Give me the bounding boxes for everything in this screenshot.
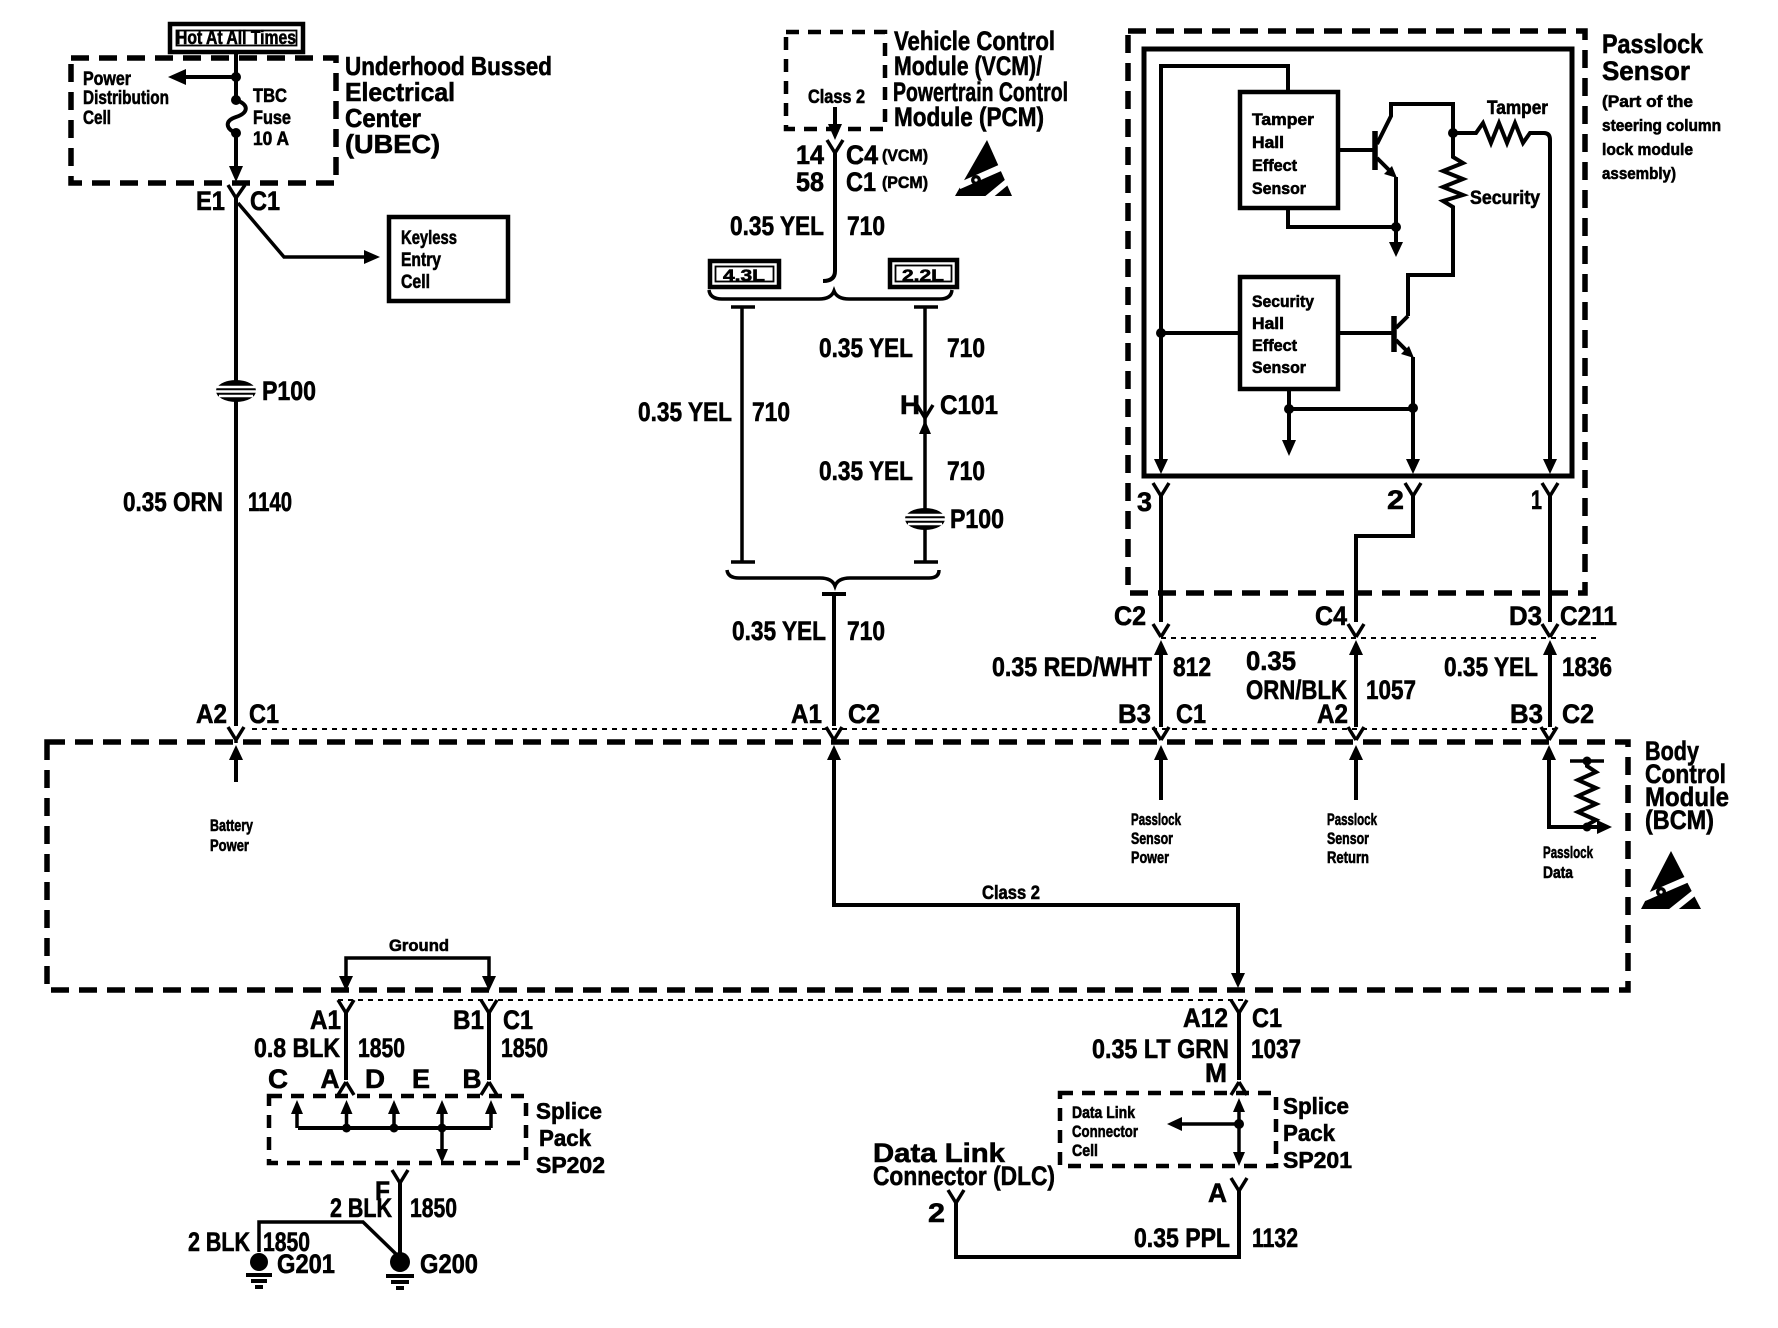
wire label 2 BLK 1850 (G201) [188,1227,310,1257]
svg-text:Data Link: Data Link [1072,1103,1135,1122]
connector H C101 [900,390,998,434]
svg-text:Sensor: Sensor [1252,358,1306,377]
Passlock Sensor outer dashed box [1128,31,1585,593]
connector A (SP201) [1208,1178,1247,1208]
svg-text:1850: 1850 [501,1033,548,1063]
Ground bracket inside BCM [339,936,496,991]
svg-text:710: 710 [847,211,885,241]
wire label 0.35 ORN/BLK 1057 [1246,646,1416,705]
svg-text:C1: C1 [846,167,876,197]
pin 3 [1137,483,1169,517]
svg-text:Tamper: Tamper [1487,98,1549,119]
svg-text:Fuse: Fuse [253,108,291,129]
connector B3 / C2 at BCM [1510,699,1594,760]
svg-text:(Part of the: (Part of the [1602,92,1693,111]
svg-text:Pack: Pack [539,1125,591,1151]
svg-text:1057: 1057 [1366,675,1416,705]
svg-text:Data: Data [1543,863,1573,882]
connector C1 face line at BCM bottom [338,999,1244,1001]
resistor Security [1408,133,1540,316]
svg-text:A2: A2 [1317,699,1348,729]
svg-text:1132: 1132 [1252,1223,1298,1253]
svg-text:1850: 1850 [358,1033,405,1063]
svg-text:(BCM): (BCM) [1645,805,1714,835]
svg-text:B3: B3 [1510,699,1543,729]
svg-text:Class 2: Class 2 [808,87,865,108]
connector C211 face line [1161,637,1597,639]
connector D3 C211 [1509,601,1617,727]
label "Power Distribution Cell" [83,69,169,129]
splice pin arrow B [485,1100,497,1128]
svg-text:M: M [1205,1058,1227,1088]
splice bus SP202 [298,1126,491,1130]
wire label 0.35 LT GRN 1037 [1092,1034,1301,1064]
svg-text:Tamper: Tamper [1252,110,1314,129]
wire Security Hall bottom to Q2 emitter [1282,389,1418,470]
UBEC dashed box (Underhood Bussed Electrical Center) [71,58,336,183]
svg-text:Battery: Battery [210,816,253,835]
connector M [1205,1058,1247,1095]
svg-text:E: E [412,1064,430,1094]
svg-text:4.3L: 4.3L [723,266,765,285]
resistor Tamper [1448,98,1550,143]
svg-text:steering column: steering column [1602,116,1721,135]
wire label 0.35 YEL 710 (2.2L branch lower) [819,456,985,486]
svg-text:A: A [1208,1178,1227,1208]
label Passlock Sensor Return [1327,810,1377,867]
wire A12 to SP201 [1237,1013,1241,1080]
wire arrow to Power Distribution Cell [168,69,241,85]
svg-text:Effect: Effect [1252,336,1297,355]
svg-text:1: 1 [1531,485,1542,515]
splice out arrow down [436,1128,448,1163]
svg-text:A12: A12 [1183,1003,1228,1033]
wire branch to G201 [259,1222,397,1255]
svg-text:G200: G200 [420,1249,478,1279]
label "Underhood Bussed Electrical Center (UBEC)" [345,51,552,159]
svg-text:2: 2 [928,1198,945,1228]
svg-text:Splice: Splice [536,1098,602,1124]
box Security Hall Effect Sensor [1240,277,1338,389]
wire fuse to UBEC border with arrow [229,133,243,182]
wire pin3 to C2 [1159,496,1163,622]
svg-text:0.35: 0.35 [1246,646,1296,676]
svg-text:Passlock: Passlock [1131,810,1181,829]
svg-text:1140: 1140 [248,487,292,517]
connector C4 (C211) [1315,601,1364,727]
wire label 0.35 YEL 1836 [1444,652,1612,682]
bottom brace [727,570,939,586]
svg-text:0.35 ORN: 0.35 ORN [123,487,223,517]
label Passlock Sensor Power [1131,810,1181,867]
svg-text:assembly): assembly) [1602,164,1676,183]
svg-text:2 BLK: 2 BLK [330,1193,392,1223]
svg-text:C1: C1 [1252,1003,1282,1033]
label "Body Control Module (BCM)" [1645,736,1729,835]
wire VCM down to engine brace [823,153,835,281]
box Keyless Entry Cell [389,217,508,301]
svg-text:C4: C4 [846,140,878,170]
ground G201 [246,1249,335,1287]
wire label 0.8 BLK 1850 [254,1033,405,1063]
connector A1 / C2 at BCM [791,699,880,743]
svg-text:0.35 YEL: 0.35 YEL [638,397,732,427]
svg-text:SP202: SP202 [536,1152,605,1178]
svg-text:Return: Return [1327,848,1369,867]
label Data Link Connector Cell [1072,1103,1138,1160]
tag box 2.2L [890,260,957,287]
tag box 4.3L [710,261,779,287]
label Data Link Connector (DLC) [873,1138,1055,1191]
wire label 0.35 RED/WHT 812 [992,652,1211,682]
connector A2 / C1 at BCM [196,699,279,743]
grommet P100 [215,376,316,406]
svg-text:Module (PCM): Module (PCM) [894,102,1044,132]
svg-text:C1: C1 [249,699,279,729]
svg-text:lock module: lock module [1602,140,1693,159]
svg-text:C2: C2 [848,699,880,729]
svg-text:B3: B3 [1118,699,1151,729]
svg-text:C: C [268,1064,288,1094]
wire from Hot At All Times into UBEC [234,52,238,96]
svg-text:A2: A2 [196,699,227,729]
svg-text:C4: C4 [1315,601,1347,631]
svg-text:C1: C1 [503,1005,533,1035]
grommet P100 (2.2L branch) [904,504,1004,534]
svg-text:Passlock: Passlock [1543,843,1593,862]
BCM dashed box (Body Control Module) [47,742,1628,990]
svg-text:14: 14 [796,140,824,170]
svg-text:B: B [463,1064,482,1094]
svg-text:2: 2 [1387,485,1404,515]
svg-text:2.2L: 2.2L [902,266,944,285]
svg-text:1850: 1850 [410,1193,457,1223]
wire Tamper resistor to pin 1 [1548,140,1552,470]
svg-text:Hall: Hall [1252,314,1284,333]
wire 4.3L branch [731,307,755,562]
svg-text:(PCM): (PCM) [882,173,928,192]
svg-text:Splice: Splice [1283,1093,1349,1119]
splice pin arrow C [291,1100,303,1128]
svg-text:Connector: Connector [1072,1122,1138,1141]
wire label 0.35 YEL 710 (2.2L branch upper) [819,333,985,363]
splice SP201 arrow to cell [1167,1117,1239,1131]
label box "Hot At All Times" [170,24,303,52]
wire label 2 BLK 1850 (F) [330,1193,457,1223]
svg-text:Sensor: Sensor [1131,829,1173,848]
pin 1 [1531,483,1558,515]
svg-text:D: D [365,1064,385,1094]
svg-text:Connector (DLC): Connector (DLC) [873,1161,1055,1191]
connector A2 at BCM [1317,699,1364,800]
wire pin1 to D3 [1548,496,1552,622]
svg-text:G201: G201 [277,1249,335,1279]
wire E1 down to BCM A2 [234,198,238,726]
svg-text:Keyless: Keyless [401,228,457,249]
wire label 0.35 PPL 1132 [1134,1223,1298,1253]
svg-text:58: 58 [796,167,824,197]
connector E1 / C1 [196,185,280,216]
wire label 0.35 YEL 710 (4.3L branch) [638,397,790,427]
label "Passlock Sensor (Part of the steering column lock module assembly)" [1602,29,1721,183]
svg-text:Entry: Entry [401,250,441,271]
svg-text:0.8 BLK: 0.8 BLK [254,1033,340,1063]
Class 2 wire inside BCM [827,745,1245,988]
Splice Pack SP201 dashed box [1060,1093,1276,1166]
pin arrows at sensor box bottom [1154,459,1557,474]
svg-text:P100: P100 [262,376,316,406]
svg-text:1836: 1836 [1562,652,1612,682]
svg-text:0.35 PPL: 0.35 PPL [1134,1223,1230,1253]
svg-text:Hall: Hall [1252,133,1284,152]
svg-text:Sensor: Sensor [1327,829,1369,848]
wire 2.2L branch [914,307,938,562]
transistor Q2 (security) [1338,316,1414,408]
svg-text:812: 812 [1173,652,1211,682]
svg-text:0.35 YEL: 0.35 YEL [732,616,826,646]
ground G200 [386,1249,478,1288]
node junction pin3 riser to Security Hall [1156,328,1240,338]
svg-text:(UBEC): (UBEC) [345,129,440,159]
svg-text:Passlock: Passlock [1602,29,1704,59]
svg-text:C101: C101 [940,390,998,420]
svg-text:0.35 YEL: 0.35 YEL [819,456,913,486]
wire pin3 riser and top feed [1161,66,1288,470]
svg-text:TBC: TBC [253,86,287,107]
pin arrow Battery Power [210,745,253,855]
svg-text:C1: C1 [250,186,280,216]
label Splice Pack SP201 [1283,1093,1352,1173]
top brace [709,290,952,299]
svg-text:Power: Power [83,69,131,90]
svg-text:0.35 YEL: 0.35 YEL [1444,652,1538,682]
wire F to G200 [398,1183,402,1253]
svg-text:Security: Security [1252,292,1314,311]
svg-text:A1: A1 [791,699,822,729]
svg-text:Distribution: Distribution [83,88,169,109]
svg-text:Cell: Cell [83,108,111,129]
svg-text:Pack: Pack [1283,1120,1335,1146]
svg-text:E1: E1 [196,186,225,216]
connector C1/C2 face line at BCM top [252,728,1556,730]
svg-text:C2: C2 [1114,601,1146,631]
ESD symbol (VCM) [955,140,1013,201]
fuse TBC Fuse 10 A [228,86,291,150]
svg-text:D3: D3 [1509,601,1542,631]
connector 2 (DLC) [928,1190,964,1228]
wire pin2 to C4 with jog [1356,496,1413,622]
label Splice Pack SP202 [536,1098,605,1178]
transistor Q1 (tamper) [1338,104,1453,227]
svg-text:3: 3 [1137,487,1152,517]
ESD symbol (BCM) [1641,851,1701,913]
box Tamper Hall Effect Sensor [1240,92,1338,208]
connector 14 C4 (VCM) / 58 C1 (PCM) [796,140,928,197]
Passlock Data circuit in BCM [1543,757,1612,883]
svg-text:A: A [321,1064,340,1094]
svg-text:Effect: Effect [1252,156,1297,175]
svg-text:Sensor: Sensor [1252,179,1306,198]
splice SP201 in arrow [1233,1098,1245,1129]
wire label 0.35 YEL 710 [730,211,885,241]
svg-text:1037: 1037 [1251,1034,1301,1064]
pin 2 [1387,483,1421,515]
splice pin arrow E [436,1100,448,1133]
svg-text:Passlock: Passlock [1327,810,1377,829]
splice pin arrow D [388,1100,400,1133]
splice SP201 out arrow [1233,1124,1245,1166]
svg-text:710: 710 [752,397,790,427]
connector A12 / C1 [1183,1000,1282,1033]
svg-text:C2: C2 [1562,699,1594,729]
svg-text:Security: Security [1470,188,1540,209]
connector B3 / C1 at BCM [1118,699,1206,800]
label "Vehicle Control Module (VCM)/ Powertrain Control Module (PCM)" [893,26,1068,132]
svg-text:0.35 YEL: 0.35 YEL [819,333,913,363]
svg-text:Class 2: Class 2 [982,883,1040,904]
wire branch to Keyless Entry Cell [238,203,380,264]
svg-text:10 A: 10 A [253,129,289,150]
wire label 0.35 ORN 1140 [123,487,292,517]
svg-text:C211: C211 [1560,601,1617,631]
svg-text:P100: P100 [950,504,1004,534]
wire Tamper Hall bottom to Q1 emitter [1288,208,1403,257]
svg-text:SP201: SP201 [1283,1147,1352,1173]
splice pack pin letters C A D E B [268,1064,482,1094]
svg-text:Power: Power [210,836,249,855]
svg-text:Hot At All Times: Hot At All Times [176,28,296,49]
svg-text:0.35 RED/WHT: 0.35 RED/WHT [992,652,1152,682]
wire label 0.35 YEL 710 (to BCM) [732,616,885,646]
connector A1 (ground) [310,1000,354,1095]
wire brace to BCM A1 [822,594,846,726]
svg-text:Sensor: Sensor [1602,56,1690,86]
wire A to DLC pin 2 [956,1191,1239,1257]
svg-text:710: 710 [947,333,985,363]
svg-text:0.35 YEL: 0.35 YEL [730,211,824,241]
svg-text:Cell: Cell [1072,1141,1098,1160]
svg-text:2 BLK: 2 BLK [188,1227,250,1257]
arrow out of VCM box [828,107,842,140]
svg-text:A1: A1 [310,1005,341,1035]
splice pin arrow A [341,1100,353,1133]
svg-text:B1: B1 [453,1005,484,1035]
Passlock Sensor inner box [1144,49,1572,476]
svg-text:710: 710 [947,456,985,486]
svg-text:Cell: Cell [401,272,430,293]
connector F [375,1170,408,1206]
connector C2 (C211) [1114,601,1169,727]
svg-text:710: 710 [847,616,885,646]
VCM dashed box [786,32,885,129]
connector B1 / C1 (ground) [453,1000,533,1095]
svg-text:C1: C1 [1176,699,1206,729]
svg-text:Power: Power [1131,848,1169,867]
svg-text:(VCM): (VCM) [882,146,928,165]
svg-text:Ground: Ground [389,936,449,955]
Splice Pack SP202 dashed box [269,1096,526,1163]
